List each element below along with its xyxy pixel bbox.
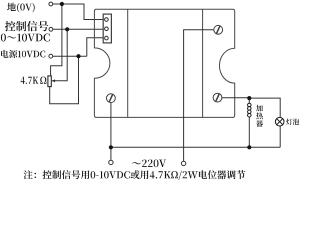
wire bus control to pot wiper xyxy=(54,29,67,81)
control terminal block TB1 xyxy=(103,14,111,43)
label: supply 10VDC xyxy=(1,50,45,58)
wire T1 to AC line riser xyxy=(184,30,214,161)
screw terminal T1 (AC in) xyxy=(214,25,223,34)
TB1 pin 2 xyxy=(105,27,109,31)
terminal: ground input circle xyxy=(49,2,53,6)
module U1 outline (SSR power regulator) xyxy=(94,9,234,117)
terminal: AC source left circle xyxy=(109,160,113,164)
terminal: AC source right circle xyxy=(181,161,185,165)
wire row1 ground 0V xyxy=(53,4,103,20)
terminal: 10VDC supply input circle xyxy=(49,54,53,58)
label: ground 0V xyxy=(7,3,35,13)
wire T3 to heater top node xyxy=(222,97,249,99)
label: lamp name xyxy=(286,119,299,125)
screw terminal T2 (AC out left) xyxy=(107,94,116,103)
wire heater top node to lamp top xyxy=(249,98,280,117)
wire T2 down to AC bus xyxy=(110,103,112,161)
label: AC 220V xyxy=(132,160,166,168)
TB1 pin 1 xyxy=(105,18,109,22)
label: control signal line1 xyxy=(5,21,48,31)
label: R1 value ohm xyxy=(40,77,47,84)
heater element RL (coil loops) xyxy=(248,103,252,117)
note text xyxy=(24,170,246,180)
wire row2 control signal xyxy=(53,28,103,30)
TB1 pin 3 xyxy=(105,36,109,40)
label: control signal line2 xyxy=(1,34,50,42)
wire heater bottom lead xyxy=(248,117,250,147)
wire heater top lead xyxy=(248,98,250,103)
junction dot row3 xyxy=(76,54,80,58)
potentiometer R1 4.7K body xyxy=(48,76,51,87)
wire row3 supply 10VDC xyxy=(53,38,103,57)
potentiometer wiper arrow xyxy=(52,80,56,82)
module internal divider right xyxy=(202,9,204,117)
label: heater name (vertical) xyxy=(256,105,263,127)
screw terminal T3 (load out) xyxy=(213,93,222,102)
junction dot row1 xyxy=(60,2,64,6)
junction dot AC left xyxy=(109,145,113,149)
wire pot bottom to supply xyxy=(50,56,79,104)
label: R1 value 4.7K xyxy=(21,77,39,84)
wire bus ground to pot top xyxy=(51,4,62,76)
junction dot heater bottom xyxy=(247,145,251,149)
junction dot heater top xyxy=(247,96,251,100)
module internal divider left xyxy=(127,9,129,117)
terminal: control signal input circle xyxy=(49,27,53,31)
junction dot row2 xyxy=(65,27,69,31)
lamp L1 (indicator bulb) xyxy=(275,117,284,126)
wire AC bottom bus xyxy=(111,126,280,147)
